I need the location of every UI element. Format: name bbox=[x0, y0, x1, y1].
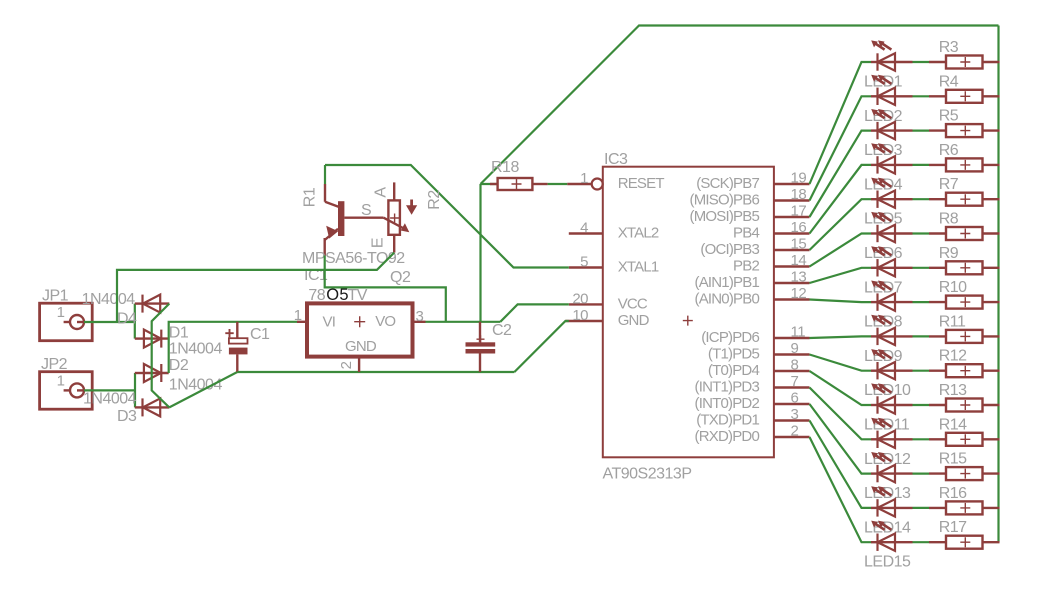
wire bbox=[479, 184, 481, 322]
pin 8 (T0)PD4 bbox=[708, 357, 810, 380]
svg-text:(SCK)PB7: (SCK)PB7 bbox=[696, 175, 759, 192]
svg-text:(T1)PD5: (T1)PD5 bbox=[708, 346, 760, 363]
pin 10 GND bbox=[565, 307, 649, 329]
LED LED6 bbox=[864, 212, 913, 262]
svg-text:R13: R13 bbox=[939, 382, 967, 399]
resistor R16 bbox=[929, 485, 983, 515]
svg-text:19: 19 bbox=[791, 170, 807, 187]
transistor Q2 MPSA56-TO92 bbox=[302, 184, 384, 256]
wire bbox=[325, 165, 569, 268]
pin 14 PB2 bbox=[733, 252, 809, 275]
svg-text:R17: R17 bbox=[939, 519, 967, 536]
wire bbox=[134, 373, 136, 407]
diode D3 1N4004 bbox=[135, 398, 170, 416]
svg-text:R9: R9 bbox=[939, 245, 959, 262]
resistor R14 bbox=[929, 416, 983, 446]
svg-text:Q2: Q2 bbox=[390, 269, 411, 286]
LED LED4 bbox=[864, 143, 913, 193]
wire bbox=[983, 198, 1000, 200]
svg-text:R7: R7 bbox=[939, 176, 959, 193]
resistor R6 bbox=[929, 142, 983, 172]
wire bbox=[84, 389, 135, 391]
regulator IC1 7805TV bbox=[294, 267, 426, 372]
wire bbox=[810, 199, 872, 250]
svg-text:(AIN1)PB1: (AIN1)PB1 bbox=[695, 274, 760, 291]
svg-text:VO: VO bbox=[375, 313, 395, 330]
LED LED11 bbox=[864, 383, 913, 433]
svg-text:2: 2 bbox=[338, 361, 355, 369]
svg-text:R8: R8 bbox=[939, 211, 959, 228]
svg-text:R12: R12 bbox=[939, 348, 967, 365]
svg-text:XTAL1: XTAL1 bbox=[618, 259, 659, 276]
trimmer R2 (A/S/E) bbox=[361, 182, 417, 252]
svg-text:9: 9 bbox=[791, 340, 799, 357]
wire bbox=[983, 164, 1000, 166]
wire bbox=[810, 96, 872, 200]
pin 5 XTAL1 bbox=[569, 254, 659, 276]
wire bbox=[169, 372, 237, 407]
pin 17 (MOSI)PB5 bbox=[690, 203, 810, 226]
resistor R12 bbox=[929, 348, 983, 378]
pin 19 (SCK)PB7 bbox=[696, 170, 809, 193]
resistor R15 bbox=[929, 451, 983, 481]
svg-text:O5: O5 bbox=[326, 286, 349, 304]
svg-text:A: A bbox=[373, 187, 390, 198]
svg-text:PB4: PB4 bbox=[733, 225, 759, 242]
wire bbox=[983, 95, 1000, 97]
svg-text:(RXD)PD0: (RXD)PD0 bbox=[695, 428, 760, 445]
diode D1 1N4004 bbox=[135, 330, 169, 348]
wire bbox=[325, 256, 446, 322]
svg-text:TV: TV bbox=[348, 287, 368, 304]
svg-text:R1: R1 bbox=[302, 187, 319, 207]
svg-text:11: 11 bbox=[791, 324, 806, 341]
LED LED12 bbox=[864, 418, 913, 468]
svg-text:10: 10 bbox=[572, 307, 588, 324]
wire bbox=[913, 507, 930, 509]
wire bbox=[913, 438, 930, 440]
wire bbox=[983, 438, 1000, 440]
svg-text:R10: R10 bbox=[939, 279, 967, 296]
wire bbox=[500, 304, 569, 321]
svg-text:E: E bbox=[370, 238, 387, 248]
pin 16 PB4 bbox=[733, 219, 809, 242]
svg-text:R11: R11 bbox=[939, 313, 966, 330]
svg-text:R5: R5 bbox=[939, 108, 959, 125]
svg-text:(INT0)PD2: (INT0)PD2 bbox=[695, 395, 760, 412]
svg-text:R15: R15 bbox=[939, 451, 967, 468]
pin 3 (TXD)PD1 bbox=[696, 406, 809, 429]
LED LED9 bbox=[864, 315, 913, 365]
resistor R9 bbox=[929, 245, 983, 275]
label 7805TV bbox=[308, 286, 367, 304]
svg-text:VI: VI bbox=[323, 314, 336, 331]
svg-text:(INT1)PD3: (INT1)PD3 bbox=[695, 379, 760, 396]
svg-text:20: 20 bbox=[572, 290, 588, 307]
svg-text:IC3: IC3 bbox=[604, 151, 628, 168]
svg-text:1N4004: 1N4004 bbox=[82, 291, 136, 308]
wire bbox=[983, 301, 1000, 303]
resistor R8 bbox=[929, 211, 983, 241]
svg-text:1N4004: 1N4004 bbox=[169, 341, 223, 358]
connector JP2 bbox=[40, 356, 93, 409]
svg-text:RESET: RESET bbox=[618, 175, 665, 192]
svg-text:(OCI)PB3: (OCI)PB3 bbox=[700, 241, 759, 258]
wire bbox=[983, 61, 1000, 63]
connector JP1 bbox=[40, 288, 93, 341]
wire bbox=[810, 300, 872, 303]
wire bbox=[983, 507, 1000, 509]
wire bbox=[997, 26, 999, 543]
pin 9 (T1)PD5 bbox=[708, 340, 810, 363]
wire bbox=[913, 95, 930, 97]
LED LED8 bbox=[864, 281, 913, 331]
wire bbox=[324, 165, 326, 184]
wire bbox=[810, 234, 872, 267]
wire bbox=[983, 335, 1000, 337]
svg-text:R4: R4 bbox=[939, 73, 959, 90]
svg-text:1: 1 bbox=[580, 170, 588, 187]
wire bbox=[913, 232, 930, 234]
svg-text:R6: R6 bbox=[939, 142, 959, 159]
wire bbox=[237, 371, 514, 373]
wire bbox=[983, 370, 1000, 372]
svg-text:D2: D2 bbox=[169, 357, 189, 374]
wire bbox=[169, 322, 297, 373]
svg-text:(TXD)PD1: (TXD)PD1 bbox=[696, 412, 759, 429]
pin 15 (OCI)PB3 bbox=[700, 236, 809, 259]
svg-text:S: S bbox=[361, 202, 371, 219]
svg-text:C1: C1 bbox=[250, 326, 270, 343]
wire bbox=[810, 131, 872, 217]
pin 20 VCC bbox=[569, 290, 648, 312]
wire bbox=[913, 61, 930, 63]
wire bbox=[913, 198, 930, 200]
wire bbox=[913, 404, 930, 406]
resistor R5 bbox=[929, 108, 983, 138]
svg-text:R3: R3 bbox=[939, 39, 959, 56]
svg-text:(T0)PD4: (T0)PD4 bbox=[708, 362, 760, 379]
wire bbox=[983, 232, 1000, 234]
pin 1 RESET bbox=[567, 170, 664, 192]
svg-text:3: 3 bbox=[416, 308, 424, 325]
svg-text:D3: D3 bbox=[117, 408, 137, 425]
wire bbox=[117, 253, 394, 322]
LED LED14 bbox=[864, 486, 913, 536]
svg-text:GND: GND bbox=[345, 338, 377, 355]
wire bbox=[481, 183, 498, 185]
resistor R7 bbox=[929, 176, 983, 206]
svg-text:JP1: JP1 bbox=[42, 288, 69, 305]
wire bbox=[481, 26, 999, 185]
svg-text:D4: D4 bbox=[117, 311, 137, 328]
svg-text:PB2: PB2 bbox=[733, 258, 759, 275]
wire bbox=[548, 183, 568, 185]
svg-text:15: 15 bbox=[791, 236, 807, 253]
svg-text:(AIN0)PB0: (AIN0)PB0 bbox=[695, 291, 760, 308]
wire bbox=[810, 437, 872, 542]
svg-text:1: 1 bbox=[57, 372, 65, 389]
resistor R13 bbox=[929, 382, 983, 412]
wire bbox=[913, 370, 930, 372]
wire bbox=[983, 404, 1000, 406]
wire bbox=[810, 268, 872, 283]
svg-text:R2: R2 bbox=[426, 190, 443, 210]
svg-text:16: 16 bbox=[791, 219, 807, 236]
IC IC3 AT90S2313P body bbox=[603, 151, 774, 483]
svg-text:17: 17 bbox=[791, 203, 807, 220]
wire bbox=[514, 321, 568, 372]
svg-text:13: 13 bbox=[791, 269, 807, 286]
svg-text:D1: D1 bbox=[169, 325, 189, 342]
svg-text:R14: R14 bbox=[939, 416, 967, 433]
pin 12 (AIN0)PB0 bbox=[695, 285, 810, 308]
pin 4 XTAL2 bbox=[569, 220, 659, 242]
LED LED3 bbox=[864, 109, 913, 159]
wire bbox=[810, 404, 872, 474]
svg-text:R16: R16 bbox=[939, 485, 967, 502]
capacitor C1 (polarized) bbox=[225, 322, 270, 372]
svg-text:GND: GND bbox=[618, 312, 650, 329]
wire bbox=[810, 355, 872, 371]
LED LED2 bbox=[864, 75, 913, 125]
resistor R18 bbox=[490, 159, 548, 190]
wire bbox=[913, 473, 930, 475]
LED LED10 bbox=[864, 349, 913, 399]
wire bbox=[913, 335, 930, 337]
resistor R10 bbox=[929, 279, 983, 309]
svg-text:1: 1 bbox=[57, 304, 65, 321]
svg-text:1: 1 bbox=[294, 307, 302, 324]
LED LED1 bbox=[864, 40, 913, 90]
svg-text:(MOSI)PB5: (MOSI)PB5 bbox=[690, 208, 760, 225]
wire bbox=[810, 62, 872, 184]
svg-text:JP2: JP2 bbox=[41, 356, 68, 373]
svg-text:LED15: LED15 bbox=[864, 554, 911, 571]
svg-text:AT90S2313P: AT90S2313P bbox=[603, 466, 692, 483]
svg-text:R18: R18 bbox=[491, 159, 519, 176]
resistor R17 bbox=[929, 519, 983, 549]
LED LED5 bbox=[864, 178, 913, 228]
wire bbox=[913, 164, 930, 166]
svg-text:(ICP)PD6: (ICP)PD6 bbox=[701, 329, 759, 346]
wire bbox=[913, 130, 930, 132]
wire bbox=[810, 336, 872, 338]
svg-text:2: 2 bbox=[791, 423, 799, 440]
wire bbox=[134, 304, 136, 339]
svg-text:6: 6 bbox=[791, 390, 799, 407]
svg-text:3: 3 bbox=[791, 406, 799, 423]
svg-text:12: 12 bbox=[791, 285, 807, 302]
svg-text:(MISO)PB6: (MISO)PB6 bbox=[690, 192, 760, 209]
capacitor C2 bbox=[466, 322, 513, 372]
wire bbox=[983, 267, 1000, 269]
diode D2 1N4004 bbox=[135, 364, 169, 382]
svg-text:8: 8 bbox=[791, 357, 799, 374]
wire bbox=[983, 541, 1000, 543]
diode D4 1N4004 bbox=[135, 295, 170, 313]
svg-text:C2: C2 bbox=[492, 322, 512, 339]
svg-text:78: 78 bbox=[308, 287, 325, 304]
resistor R3 bbox=[929, 39, 983, 69]
wire bbox=[983, 129, 1000, 131]
wire bbox=[152, 304, 170, 408]
resistor R4 bbox=[929, 73, 983, 103]
wire bbox=[426, 321, 501, 323]
svg-text:1N4004: 1N4004 bbox=[83, 391, 137, 408]
svg-text:7: 7 bbox=[791, 373, 799, 390]
pin 7 (INT1)PD3 bbox=[695, 373, 810, 396]
pin 18 (MISO)PB6 bbox=[690, 186, 810, 209]
wire bbox=[913, 301, 930, 303]
wire bbox=[983, 472, 1000, 474]
LED LED13 bbox=[864, 452, 913, 502]
svg-text:5: 5 bbox=[580, 254, 588, 271]
pin 13 (AIN1)PB1 bbox=[695, 269, 810, 292]
wire bbox=[913, 267, 930, 269]
wire bbox=[810, 421, 872, 508]
resistor R11 bbox=[929, 313, 983, 343]
LED LED15 bbox=[864, 521, 913, 571]
wire bbox=[810, 388, 872, 440]
svg-text:18: 18 bbox=[791, 186, 807, 203]
svg-text:VCC: VCC bbox=[618, 295, 648, 312]
svg-text:14: 14 bbox=[791, 252, 807, 269]
LED LED7 bbox=[864, 246, 913, 296]
wire bbox=[810, 165, 872, 234]
pin 11 (ICP)PD6 bbox=[701, 324, 809, 347]
wire bbox=[84, 321, 135, 323]
wire bbox=[913, 541, 930, 543]
svg-text:4: 4 bbox=[580, 220, 588, 237]
svg-text:XTAL2: XTAL2 bbox=[618, 225, 659, 242]
pin 2 (RXD)PD0 bbox=[695, 423, 810, 446]
pin 6 (INT0)PD2 bbox=[695, 390, 810, 413]
wire bbox=[810, 371, 872, 405]
